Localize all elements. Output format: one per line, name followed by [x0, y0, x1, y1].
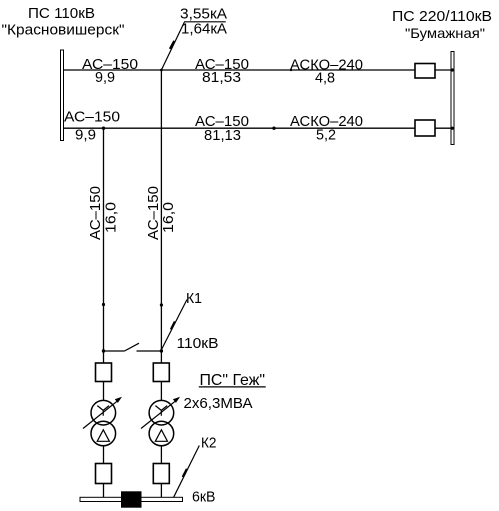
- wire: feeder 1 (left) vertical: [103, 128, 105, 363]
- section breaker (filled) on 6kV bus: [121, 491, 142, 507]
- transformer T2 lower winding: [149, 421, 174, 446]
- busbar left 110kV (Krasnovishersk): [61, 50, 64, 141]
- underline of PS Gezh: [199, 386, 266, 388]
- transformer T1 wye symbol: [97, 406, 109, 416]
- svg-text:ПС 110кВ: ПС 110кВ: [28, 6, 95, 22]
- svg-text:9,9: 9,9: [95, 70, 115, 86]
- svg-text:16,0: 16,0: [104, 202, 120, 233]
- junction dot line2 segment boundary: [272, 127, 275, 130]
- svg-text:АС–150: АС–150: [88, 186, 104, 240]
- breaker feeder1 lower: [96, 464, 112, 484]
- wire: line 1 from breaker to right busbar: [435, 69, 452, 71]
- transformer T2 delta symbol: [155, 430, 167, 442]
- transformer T1 delta symbol: [97, 430, 109, 442]
- junction dot switch right: [160, 349, 163, 352]
- busbar right (Bumazhnaya): [451, 52, 454, 145]
- wire: feeder2 lower breaker to 6kV bus: [160, 484, 162, 498]
- wire: feeder1 transformer to lower breaker: [103, 446, 105, 464]
- junction dot line1 segment boundary: [290, 69, 292, 71]
- svg-text:81,13: 81,13: [204, 128, 241, 144]
- wire: feeder1 lower breaker to 6kV bus: [103, 484, 105, 498]
- transformer T1 lower winding: [91, 421, 116, 446]
- breaker line 2 right: [415, 120, 435, 136]
- svg-text:81,53: 81,53: [202, 70, 241, 86]
- fault marker K1: [161, 300, 187, 351]
- svg-text:3,55кА: 3,55кА: [180, 7, 227, 23]
- wire: tie switch left stub: [104, 350, 125, 352]
- wire: current leader line under 3,55kA: [184, 21, 226, 23]
- wire: tie switch right stub: [137, 350, 162, 352]
- svg-text:"Бумажная": "Бумажная": [405, 25, 485, 41]
- wire: feeder 2 (right) vertical: [160, 70, 162, 363]
- junction dot feeder2 / fault arrow on line 1: [160, 69, 163, 72]
- svg-text:16,0: 16,0: [161, 202, 177, 233]
- fault arrow at line1 junction (3.55kA): [161, 22, 184, 70]
- junction dot feeder1 line end marker: [102, 303, 105, 306]
- svg-text:9,9: 9,9: [75, 128, 96, 144]
- junction dot switch left: [102, 349, 105, 352]
- transformer T2 wye symbol: [155, 406, 167, 416]
- breaker line 1 right: [415, 64, 435, 79]
- transformer T2 tap-changer arrow: [141, 399, 178, 428]
- svg-text:АС–150: АС–150: [146, 186, 162, 240]
- svg-text:6кВ: 6кВ: [192, 490, 216, 506]
- wire: feeder1 breaker to transformer: [103, 382, 105, 401]
- wire: feeder2 breaker to transformer: [160, 382, 162, 401]
- wire: line 2 bus A y=128: [64, 127, 416, 129]
- junction dot line1 / right busbar: [451, 68, 454, 71]
- transformer T2 upper winding: [149, 400, 174, 425]
- svg-text:К1: К1: [186, 291, 202, 307]
- svg-text:К2: К2: [201, 436, 217, 452]
- svg-text:4,8: 4,8: [315, 71, 335, 87]
- junction dot line2 / right busbar: [451, 127, 454, 130]
- junction dot feeder2 line end marker: [160, 303, 163, 306]
- breaker feeder2 lower: [153, 464, 169, 484]
- transformer T1 upper winding: [91, 400, 116, 425]
- wire: line 1 bus A y=70: [64, 69, 416, 71]
- svg-text:ПС 220/110кВ: ПС 220/110кВ: [392, 9, 492, 25]
- svg-text:АС–150: АС–150: [64, 110, 120, 126]
- svg-text:1,64кА: 1,64кА: [181, 22, 227, 38]
- wire: line 2 from breaker to right busbar: [435, 127, 452, 129]
- fault marker K2: [174, 446, 200, 498]
- junction dot feeder1 on line 2: [102, 127, 105, 130]
- svg-text:2х6,3МВА: 2х6,3МВА: [184, 396, 253, 412]
- transformer T1 tap-changer arrow: [83, 399, 120, 428]
- breaker feeder1 upper: [96, 363, 112, 382]
- svg-text:110кВ: 110кВ: [177, 336, 219, 352]
- disconnector blade (open): [125, 343, 140, 351]
- busbar 6kV: [80, 497, 183, 501]
- svg-text:"Красновишерск": "Красновишерск": [2, 23, 125, 39]
- wire: feeder2 transformer to lower breaker: [160, 446, 162, 464]
- breaker feeder2 upper: [153, 363, 169, 382]
- svg-text:5,2: 5,2: [316, 128, 336, 144]
